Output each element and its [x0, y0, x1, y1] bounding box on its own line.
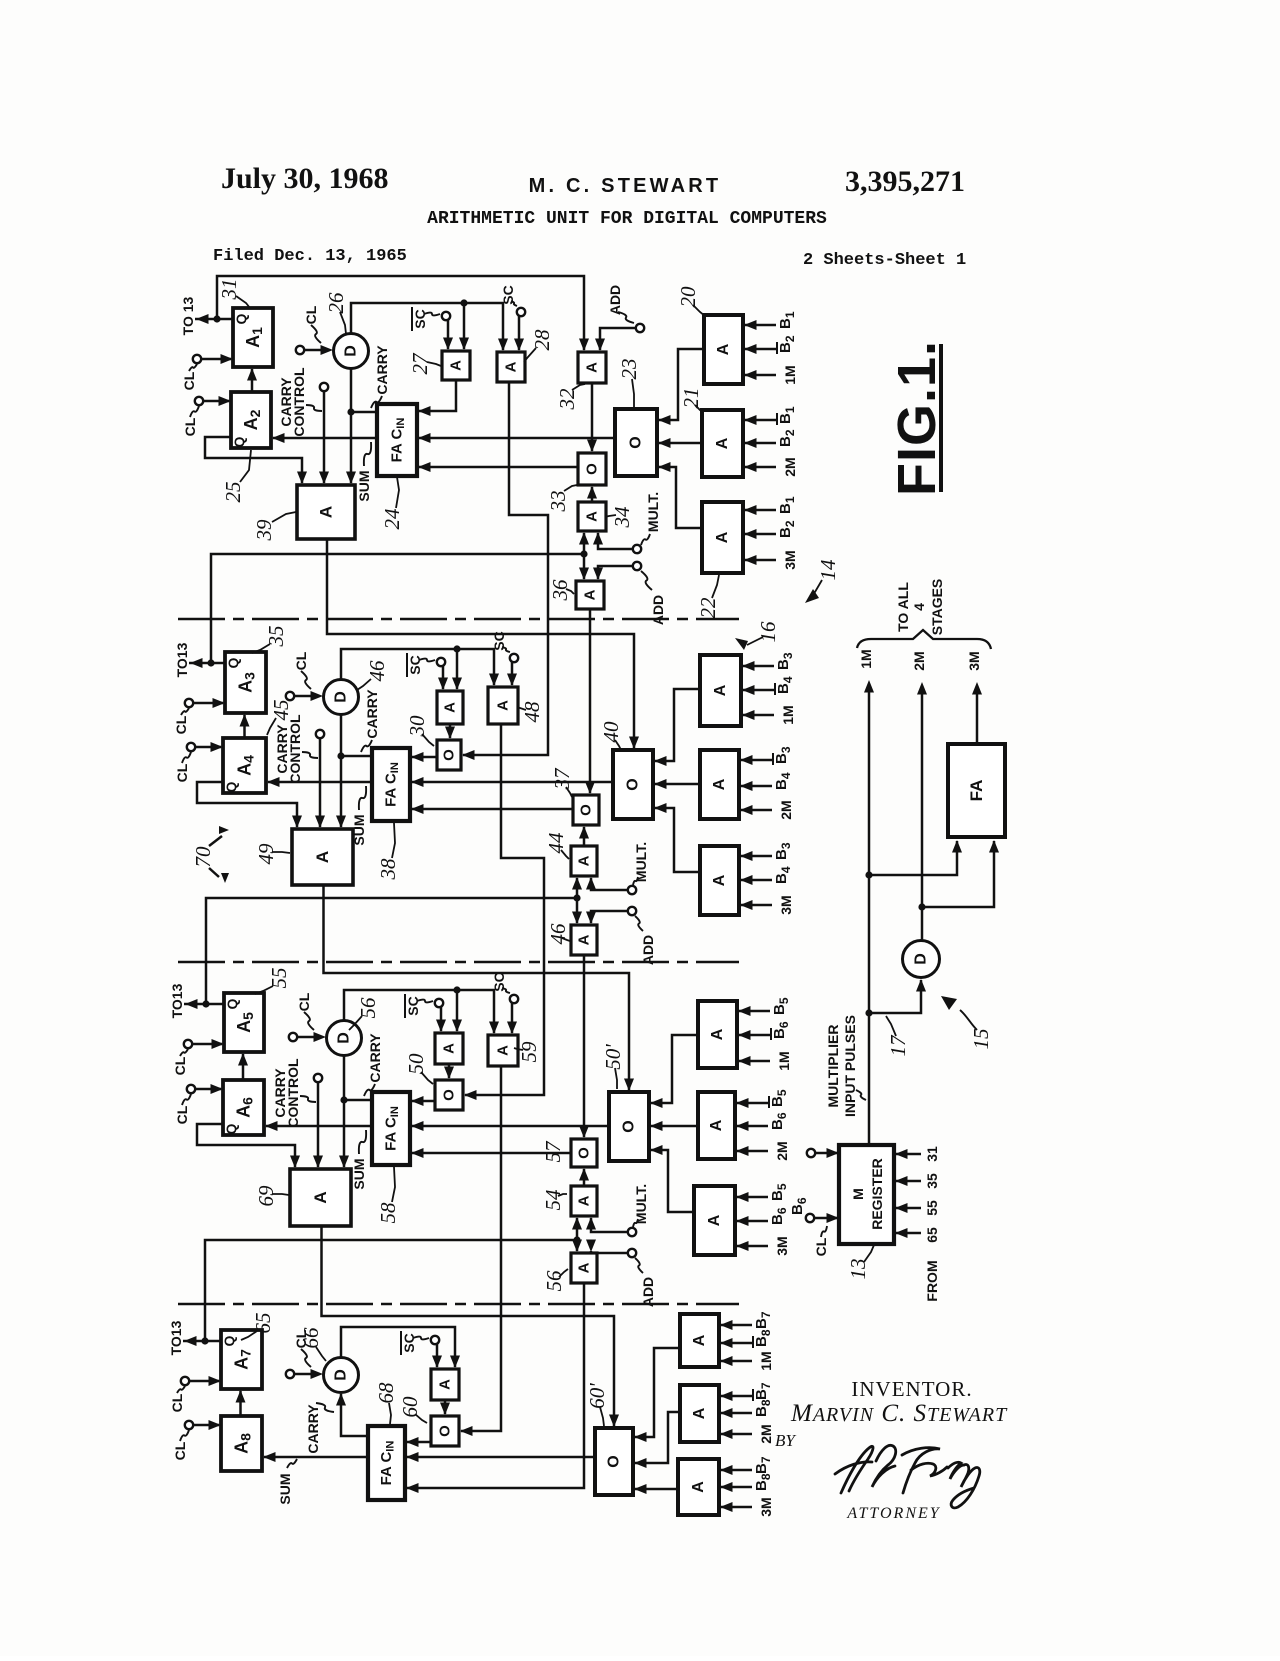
svg-text:54: 54: [541, 1189, 565, 1211]
svg-text:MARVIN C. STEWART: MARVIN C. STEWART: [790, 1400, 1008, 1427]
svg-text:A: A: [582, 589, 599, 600]
wire: AND gate (middle) to OR gate 40 (stage 2): [654, 779, 700, 789]
input stub B6 (bar) of AND gate (stage 3, 1M): [738, 1021, 791, 1040]
svg-text:1M: 1M: [858, 649, 874, 668]
label SC (stage 2): [491, 631, 510, 652]
AND gate 34: [578, 502, 606, 531]
input stub B4 of AND gate (stage 2, 2M): [740, 772, 793, 791]
label ADD (stage 1): [641, 571, 666, 625]
input stub B8 of AND gate (stage 4, 3M): [720, 1473, 773, 1492]
svg-text:A: A: [691, 1334, 708, 1346]
svg-text:July 30, 1968: July 30, 1968: [221, 162, 389, 195]
svg-text:56: 56: [356, 997, 380, 1019]
svg-text:A: A: [313, 851, 332, 863]
input stub 2M of AND gate (stage 4, 2M): [720, 1424, 774, 1443]
AND gate (stage 3, 1M): [698, 1001, 737, 1068]
svg-text:3M: 3M: [966, 651, 982, 670]
label CL for A5: [172, 1049, 188, 1075]
flip-flop A6: [223, 1080, 264, 1135]
input stub B7 of AND gate (stage 4, 1M): [720, 1311, 773, 1330]
input stub 1M of AND gate (stage 4, 1M): [720, 1351, 774, 1370]
svg-text:CARRY: CARRY: [305, 1404, 321, 1454]
OR gate 30 (stage 2): [437, 740, 461, 770]
label SC-bar (stage 1): [412, 307, 440, 331]
ref numeral 16: [747, 621, 780, 645]
AND gate (stage 3, 3M): [694, 1186, 735, 1255]
ref numeral 59: [514, 1041, 541, 1063]
svg-text:3M: 3M: [758, 1497, 774, 1516]
label SC (stage 3): [491, 972, 510, 993]
svg-text:TO13: TO13: [174, 642, 190, 677]
svg-text:Filed Dec. 13, 1965: Filed Dec. 13, 1965: [213, 247, 407, 266]
wire: Q of A7 to node TO 13: [183, 1336, 221, 1346]
AND gate 21: [702, 410, 743, 477]
label SC-bar (stage 2): [407, 653, 435, 677]
SC-bar input terminal (stage 4): [431, 1336, 442, 1368]
label MULT. (stage 3): [633, 1184, 649, 1227]
AND gate 32: [578, 352, 606, 383]
ref numeral 50: [404, 1053, 433, 1084]
ref numeral 21: [679, 388, 703, 413]
wire: 1M branch to full adder FA (multiplier): [869, 840, 962, 875]
svg-text:23: 23: [617, 359, 641, 380]
AND gate 46: [571, 925, 597, 955]
svg-text:3,395,271: 3,395,271: [845, 165, 965, 198]
svg-text:34: 34: [610, 506, 634, 529]
wire: stage-1 AND gate output to OR gate 40: [327, 539, 639, 749]
SC input terminal (stage 3): [507, 995, 518, 1034]
wire: Q of A1 feedback to gate 32: [217, 276, 589, 351]
svg-text:17: 17: [886, 1034, 910, 1057]
wire: AND gate (middle) to OR gate 50' (stage 3): [650, 1121, 698, 1131]
svg-text:A: A: [706, 1214, 723, 1226]
MULT input terminal (stage 3): [586, 1217, 636, 1236]
wire: FA SUM output to A2 (stage 1): [272, 433, 377, 443]
svg-text:MULT.: MULT.: [633, 1184, 649, 1224]
svg-text:46: 46: [365, 660, 389, 682]
svg-text:15: 15: [969, 1029, 993, 1050]
svg-text:CL: CL: [303, 305, 319, 324]
svg-text:26: 26: [324, 292, 348, 314]
ref numeral 23: [617, 359, 641, 408]
label CL for A8: [172, 1430, 189, 1460]
svg-text:49: 49: [254, 843, 278, 865]
svg-text:D: D: [343, 345, 360, 357]
svg-text:28: 28: [530, 329, 554, 351]
svg-text:35: 35: [264, 626, 288, 648]
svg-text:3M: 3M: [778, 895, 794, 914]
svg-text:CL: CL: [169, 1393, 185, 1412]
svg-text:CL: CL: [181, 371, 197, 390]
CL input terminal of A3: [185, 698, 225, 708]
input stub B1 of AND gate 22: [744, 496, 797, 515]
full adder FA (multiplier): [948, 744, 1005, 837]
svg-text:SC: SC: [405, 996, 421, 1015]
svg-text:48: 48: [520, 701, 544, 723]
flip-flop A8: [221, 1416, 262, 1471]
AND gate 38 (stage 2 shift right-gate): [488, 687, 518, 724]
wire: AND gate 54 to OR gate 57: [579, 1168, 589, 1186]
svg-text:59: 59: [517, 1041, 541, 1063]
ref numeral 46 (delay): [357, 660, 389, 690]
svg-text:2M: 2M: [911, 651, 927, 670]
label CARRY CONTROL (stage 2): [274, 714, 318, 784]
svg-text:25: 25: [221, 482, 245, 503]
wire: 2M branch to full adder FA (multiplier): [922, 840, 999, 907]
wire: Q of A5 to node TO 13: [184, 999, 224, 1009]
wire: delay D output / 2M bus: [917, 682, 927, 940]
input stub 1M of AND gate (stage 3, 1M): [738, 1051, 792, 1070]
wire: AND gate (top) to OR gate 40 (stage 2): [654, 689, 700, 766]
ref numeral 68: [374, 1382, 398, 1424]
input stub B4 (bar) of AND gate (stage 2, 1M): [742, 676, 795, 695]
AND gate 39 (stage 1): [297, 485, 355, 539]
arrow leader of ref 15: [941, 996, 977, 1030]
input stubs FROM 65 55 35 31 of M register: [895, 1149, 921, 1238]
svg-text:SUM: SUM: [351, 814, 367, 845]
svg-text:A: A: [311, 1191, 330, 1203]
svg-text:CL: CL: [182, 417, 198, 436]
svg-text:21: 21: [679, 388, 703, 409]
CL input terminal of A1: [193, 354, 233, 364]
svg-text:SC: SC: [401, 1333, 417, 1352]
svg-text:M: M: [850, 1188, 866, 1200]
ref numeral 37: [550, 767, 574, 797]
svg-text:MULT.: MULT.: [633, 842, 649, 882]
AND gate 48 (stage 3 shift right-gate): [488, 1035, 518, 1066]
AND gate 28 (stage 1 shift right-gate): [497, 352, 525, 382]
OR gate 60': [595, 1428, 633, 1495]
ref numeral 56 (delay): [349, 997, 380, 1030]
wire: OR gate 57 to FA bottom input (stage 3): [411, 1148, 571, 1158]
ref numeral 48: [517, 701, 544, 723]
svg-text:D: D: [336, 1032, 353, 1044]
svg-text:A: A: [714, 437, 731, 449]
svg-text:60: 60: [398, 1396, 422, 1418]
wire: Q of A1 to node TO 13: [195, 314, 233, 324]
ref numeral 14: [810, 559, 840, 599]
ref numeral 69: [254, 1185, 289, 1207]
ref numeral 34: [605, 506, 634, 529]
label FROM 65 55 35 31: [924, 1146, 940, 1302]
label inventor name MARVIN C. STEWART: [790, 1400, 1008, 1427]
svg-text:CONTROL: CONTROL: [291, 367, 307, 437]
full adder FA (stage 2): [372, 748, 410, 821]
ref numeral 28: [524, 329, 554, 362]
svg-text:SUM: SUM: [356, 470, 372, 501]
wire: carry line D-FA-gate (stage 1): [346, 368, 377, 484]
svg-text:A: A: [711, 874, 728, 886]
CL input terminal of A7: [181, 1376, 221, 1386]
SC-bar input terminal (stage 3): [435, 999, 446, 1032]
svg-text:A: A: [441, 1043, 458, 1054]
MULT input terminal (stage 1): [593, 532, 641, 553]
input stub B8 of AND gate (stage 4, 2M): [720, 1399, 773, 1418]
stage separator line 1 (dash-dot): [178, 618, 739, 620]
wire: OR gate to FA top input (stage 4): [406, 1437, 431, 1447]
flip-flop A4: [223, 738, 266, 793]
svg-text:FIG.1.: FIG.1.: [887, 340, 947, 496]
input stub B2 of AND gate 21: [744, 429, 797, 448]
wire: OR gate 37 to FA bottom input (stage 2): [411, 804, 573, 814]
wire: gate 36 output to stage-2 OR gate 37: [585, 609, 595, 794]
svg-text:ARITHMETIC UNIT FOR DIGITAL CO: ARITHMETIC UNIT FOR DIGITAL COMPUTERS: [427, 209, 827, 229]
input stub 1M of AND gate (stage 2, 1M): [742, 705, 796, 724]
svg-text:69: 69: [254, 1185, 278, 1207]
svg-text:CL: CL: [813, 1237, 829, 1256]
delay D (stage 4): [324, 1358, 359, 1393]
full adder FA (stage 3): [372, 1092, 410, 1165]
svg-text:CL: CL: [293, 651, 309, 670]
SC-bar input terminal (stage 1): [442, 312, 453, 350]
OR gate 60 (stage 4): [431, 1416, 459, 1446]
input stub 2M of AND gate (stage 3, 2M): [736, 1141, 790, 1160]
wire: gate 46 output to stage-3 OR gate 57: [579, 955, 589, 1138]
svg-text:Q: Q: [225, 657, 241, 668]
svg-text:1M: 1M: [776, 1051, 792, 1070]
svg-text:ATTORNEY: ATTORNEY: [846, 1505, 940, 1522]
ref numeral 33: [546, 485, 577, 513]
svg-text:A: A: [709, 1028, 726, 1040]
attorney signature: [835, 1445, 980, 1508]
svg-text:37: 37: [550, 767, 574, 791]
svg-text:D: D: [913, 953, 930, 965]
svg-text:SUM: SUM: [277, 1473, 293, 1504]
AND gate 67 (stage 4 shift left-gate): [431, 1369, 459, 1400]
full adder FA (stage 1): [377, 404, 417, 476]
svg-text:INVENTOR.: INVENTOR.: [851, 1377, 972, 1401]
svg-text:Q: Q: [231, 436, 247, 447]
wire: gate 28 output to stage-2 OR gate 30: [462, 382, 548, 760]
wire: AND gate (bottom) to OR gate 60' (stage 4): [634, 1484, 678, 1494]
svg-text:Q: Q: [223, 781, 239, 792]
stage separator line 3 (dash-dot): [178, 1303, 739, 1305]
AND gate 49 (stage 2): [292, 829, 353, 885]
label CARRY CONTROL (stage 1): [278, 367, 322, 437]
ref numeral 13: [846, 1245, 874, 1280]
svg-text:58: 58: [376, 1202, 400, 1224]
input stub B6 of AND gate (stage 3, 3M): [736, 1207, 789, 1226]
wire: D loop to shift-control gates (stage 2): [341, 645, 499, 690]
svg-text:TO13: TO13: [168, 1320, 184, 1355]
svg-text:REGISTER: REGISTER: [869, 1158, 885, 1230]
svg-text:A: A: [576, 1195, 593, 1206]
svg-text:O: O: [576, 1147, 593, 1159]
wire: OR gate 23 output to FA input (stage 1): [418, 433, 615, 443]
svg-text:1M: 1M: [782, 365, 798, 384]
ref numeral 49: [254, 843, 290, 865]
svg-text:SC: SC: [407, 655, 423, 674]
label CARRY (stage 2): [361, 689, 380, 752]
M register text REGISTER: [850, 1158, 885, 1230]
wire: AND gate (top) to OR gate 60' (stage 4): [634, 1348, 680, 1442]
label ADD (stage 2): [635, 916, 656, 965]
wire: OR gate 40 output to FA input (stage 2): [411, 777, 613, 787]
full adder FA (stage 4): [368, 1426, 405, 1500]
AND gate 27 (stage 1 shift left-gate): [442, 351, 470, 380]
wire: AND gate (bottom) to OR gate 40 (stage 2): [654, 803, 700, 872]
OR gate 57: [571, 1139, 597, 1167]
AND gate (stage 3, 2M): [698, 1092, 735, 1159]
M register 13: [839, 1145, 894, 1244]
B6 input terminal of M register: [806, 1213, 839, 1223]
input stub 3M of AND gate 22: [744, 550, 798, 569]
ref numeral 32: [555, 384, 585, 411]
label MULT. (stage 1): [641, 492, 661, 545]
OR gate 23: [615, 409, 657, 476]
svg-text:O: O: [621, 1120, 638, 1132]
svg-text:70: 70: [191, 846, 215, 868]
wire: A4 to A3: [240, 714, 250, 738]
wire: M register to delay D (multiplier): [869, 979, 926, 1013]
svg-text:TO ALL: TO ALL: [895, 582, 911, 632]
AND gate 36: [576, 581, 604, 609]
svg-text:65: 65: [251, 1313, 275, 1334]
input stub B1 (bar) of AND gate 21: [744, 406, 797, 425]
svg-text:3M: 3M: [782, 550, 798, 569]
OR gate 40: [613, 750, 653, 819]
CL input terminal of A4: [187, 742, 223, 752]
brace TO ALL 4 STAGES: [857, 630, 991, 649]
wire: bus junction to gates 44/46 (stage 2): [572, 877, 582, 924]
AND gate (stage 2, 3M): [700, 846, 739, 915]
input stub B5 of AND gate (stage 3, 3M): [736, 1183, 789, 1202]
input stub B4 of AND gate (stage 2, 3M): [740, 866, 793, 885]
CL input terminal of D (stage 4): [286, 1369, 323, 1379]
ref numeral 36: [548, 579, 574, 602]
svg-text:65: 65: [924, 1227, 940, 1243]
ref numeral 60: [398, 1396, 427, 1423]
CL input terminal of D (stage 2): [286, 691, 323, 701]
wire: AND gate (middle) to OR gate 60' (stage 4): [634, 1412, 680, 1468]
svg-text:14: 14: [816, 559, 840, 581]
delay D (stage 1): [334, 334, 369, 369]
label SC (stage 1): [500, 285, 517, 306]
svg-text:D: D: [333, 1369, 350, 1381]
svg-text:ADD: ADD: [650, 595, 666, 625]
svg-text:O: O: [628, 436, 645, 448]
input stub B7 of AND gate (stage 4, 3M): [720, 1456, 773, 1475]
wire: AND gate (top) to OR gate 23 (stage 1): [658, 349, 704, 425]
wire: bus junction to gates 54/56 (stage 3): [572, 1217, 582, 1252]
svg-text:D: D: [333, 691, 350, 703]
label SUM (stage 2): [351, 786, 367, 846]
AND gate (stage 4, 1M): [680, 1314, 719, 1367]
wire: gate 59 output to stage-4 OR gate 60: [460, 1066, 501, 1436]
delay D (stage 2): [324, 680, 359, 715]
svg-text:M. C. STEWART: M. C. STEWART: [529, 175, 722, 197]
wire: AND gate (bottom) to OR gate 23 (stage 1): [658, 462, 702, 528]
svg-text:50: 50: [404, 1053, 428, 1075]
ref numeral 39: [252, 512, 296, 542]
svg-text:MULT.: MULT.: [645, 492, 661, 532]
wire: D loop to shift-control gate (stage 4): [341, 1327, 460, 1368]
CL input terminal of D (stage 3): [289, 1032, 326, 1042]
svg-text:A: A: [690, 1481, 707, 1493]
ADD input terminal (stage 2): [586, 907, 636, 924]
label SC-bar (stage 3): [405, 994, 433, 1018]
input stub 3M of AND gate (stage 2, 3M): [740, 895, 794, 914]
AND gate (stage 4, 3M): [678, 1459, 719, 1515]
input stub B3 of AND gate (stage 2, 3M): [740, 842, 793, 861]
ref numeral 57: [541, 1140, 568, 1163]
input stub 3M of AND gate (stage 3, 3M): [736, 1236, 790, 1255]
svg-text:Q: Q: [233, 313, 249, 324]
wire: M register output / 1M bus: [864, 680, 874, 1145]
svg-text:Q: Q: [221, 1335, 237, 1346]
svg-text:32: 32: [555, 388, 579, 411]
figure label FIG.1.: [887, 340, 947, 496]
AND gate 47 (stage 3 shift left-gate): [435, 1033, 463, 1064]
flip-flop A2: [231, 392, 271, 448]
label SUM (stage 4): [277, 1459, 297, 1505]
label ADD (stage 3): [635, 1258, 656, 1307]
wire: A2 to A1: [247, 368, 257, 392]
svg-text:A: A: [714, 531, 731, 543]
wire: gate 48 output to stage-3 OR gate 50: [464, 724, 544, 1100]
svg-text:O: O: [441, 1089, 458, 1101]
svg-text:O: O: [606, 1455, 623, 1467]
svg-text:33: 33: [546, 491, 570, 513]
AND gate 22: [702, 502, 743, 573]
label CL for D (stage 2): [293, 651, 311, 689]
wire: shift gate to OR gate (stage 2): [445, 724, 455, 739]
svg-text:CARRY: CARRY: [364, 689, 380, 739]
label SC-bar (stage 4): [401, 1331, 429, 1355]
svg-text:CARRY: CARRY: [367, 1033, 383, 1083]
svg-text:46: 46: [546, 923, 570, 945]
ref numeral 66: [299, 1327, 326, 1361]
delay D (multiplier): [903, 941, 940, 978]
flip-flop A7: [221, 1330, 262, 1389]
ref numeral 15: [969, 1029, 993, 1050]
svg-text:13: 13: [846, 1259, 870, 1280]
CARRY CONTROL terminal (stage 1): [319, 383, 329, 484]
svg-text:SUM: SUM: [351, 1158, 367, 1189]
wire: AND gate (top) to OR gate 50' (stage 3): [650, 1035, 698, 1108]
svg-text:A: A: [691, 1407, 708, 1419]
CL input terminal of A6: [187, 1084, 223, 1094]
svg-text:35: 35: [924, 1173, 940, 1189]
wire: gate 56 output to stage-4 FA bottom input: [406, 1283, 584, 1493]
CL input terminal of A2: [195, 396, 231, 406]
svg-text:31: 31: [924, 1146, 940, 1162]
ref numeral 20: [676, 286, 705, 316]
AND gate 44: [571, 846, 597, 876]
label CL for A6: [174, 1094, 191, 1124]
svg-text:A: A: [448, 360, 465, 371]
label CL for A3: [173, 708, 189, 734]
wire: stage-2 Q bus to gates (stage 1): [211, 554, 584, 663]
ref numeral 56: [542, 1269, 568, 1292]
CL input terminal of A5: [184, 1039, 224, 1049]
wire: carry line D-FA-gate (stage 3): [339, 1055, 372, 1168]
ref numeral 40: [599, 721, 623, 750]
label CL for A4: [174, 752, 191, 782]
AND gate 37 (stage 2 shift left-gate): [437, 691, 463, 724]
svg-text:ADD: ADD: [640, 1277, 656, 1307]
ref numeral 24: [380, 477, 404, 530]
svg-text:A: A: [495, 700, 512, 711]
svg-text:A: A: [711, 778, 728, 790]
svg-text:24: 24: [380, 508, 404, 530]
svg-text:A: A: [576, 934, 593, 945]
SC input terminal (stage 2): [507, 654, 518, 686]
flip-flop A5: [224, 993, 264, 1052]
ref numeral 46: [546, 923, 570, 945]
svg-text:1M: 1M: [758, 1351, 774, 1370]
wire: FA SUM output to A4 (stage 2): [267, 777, 372, 787]
